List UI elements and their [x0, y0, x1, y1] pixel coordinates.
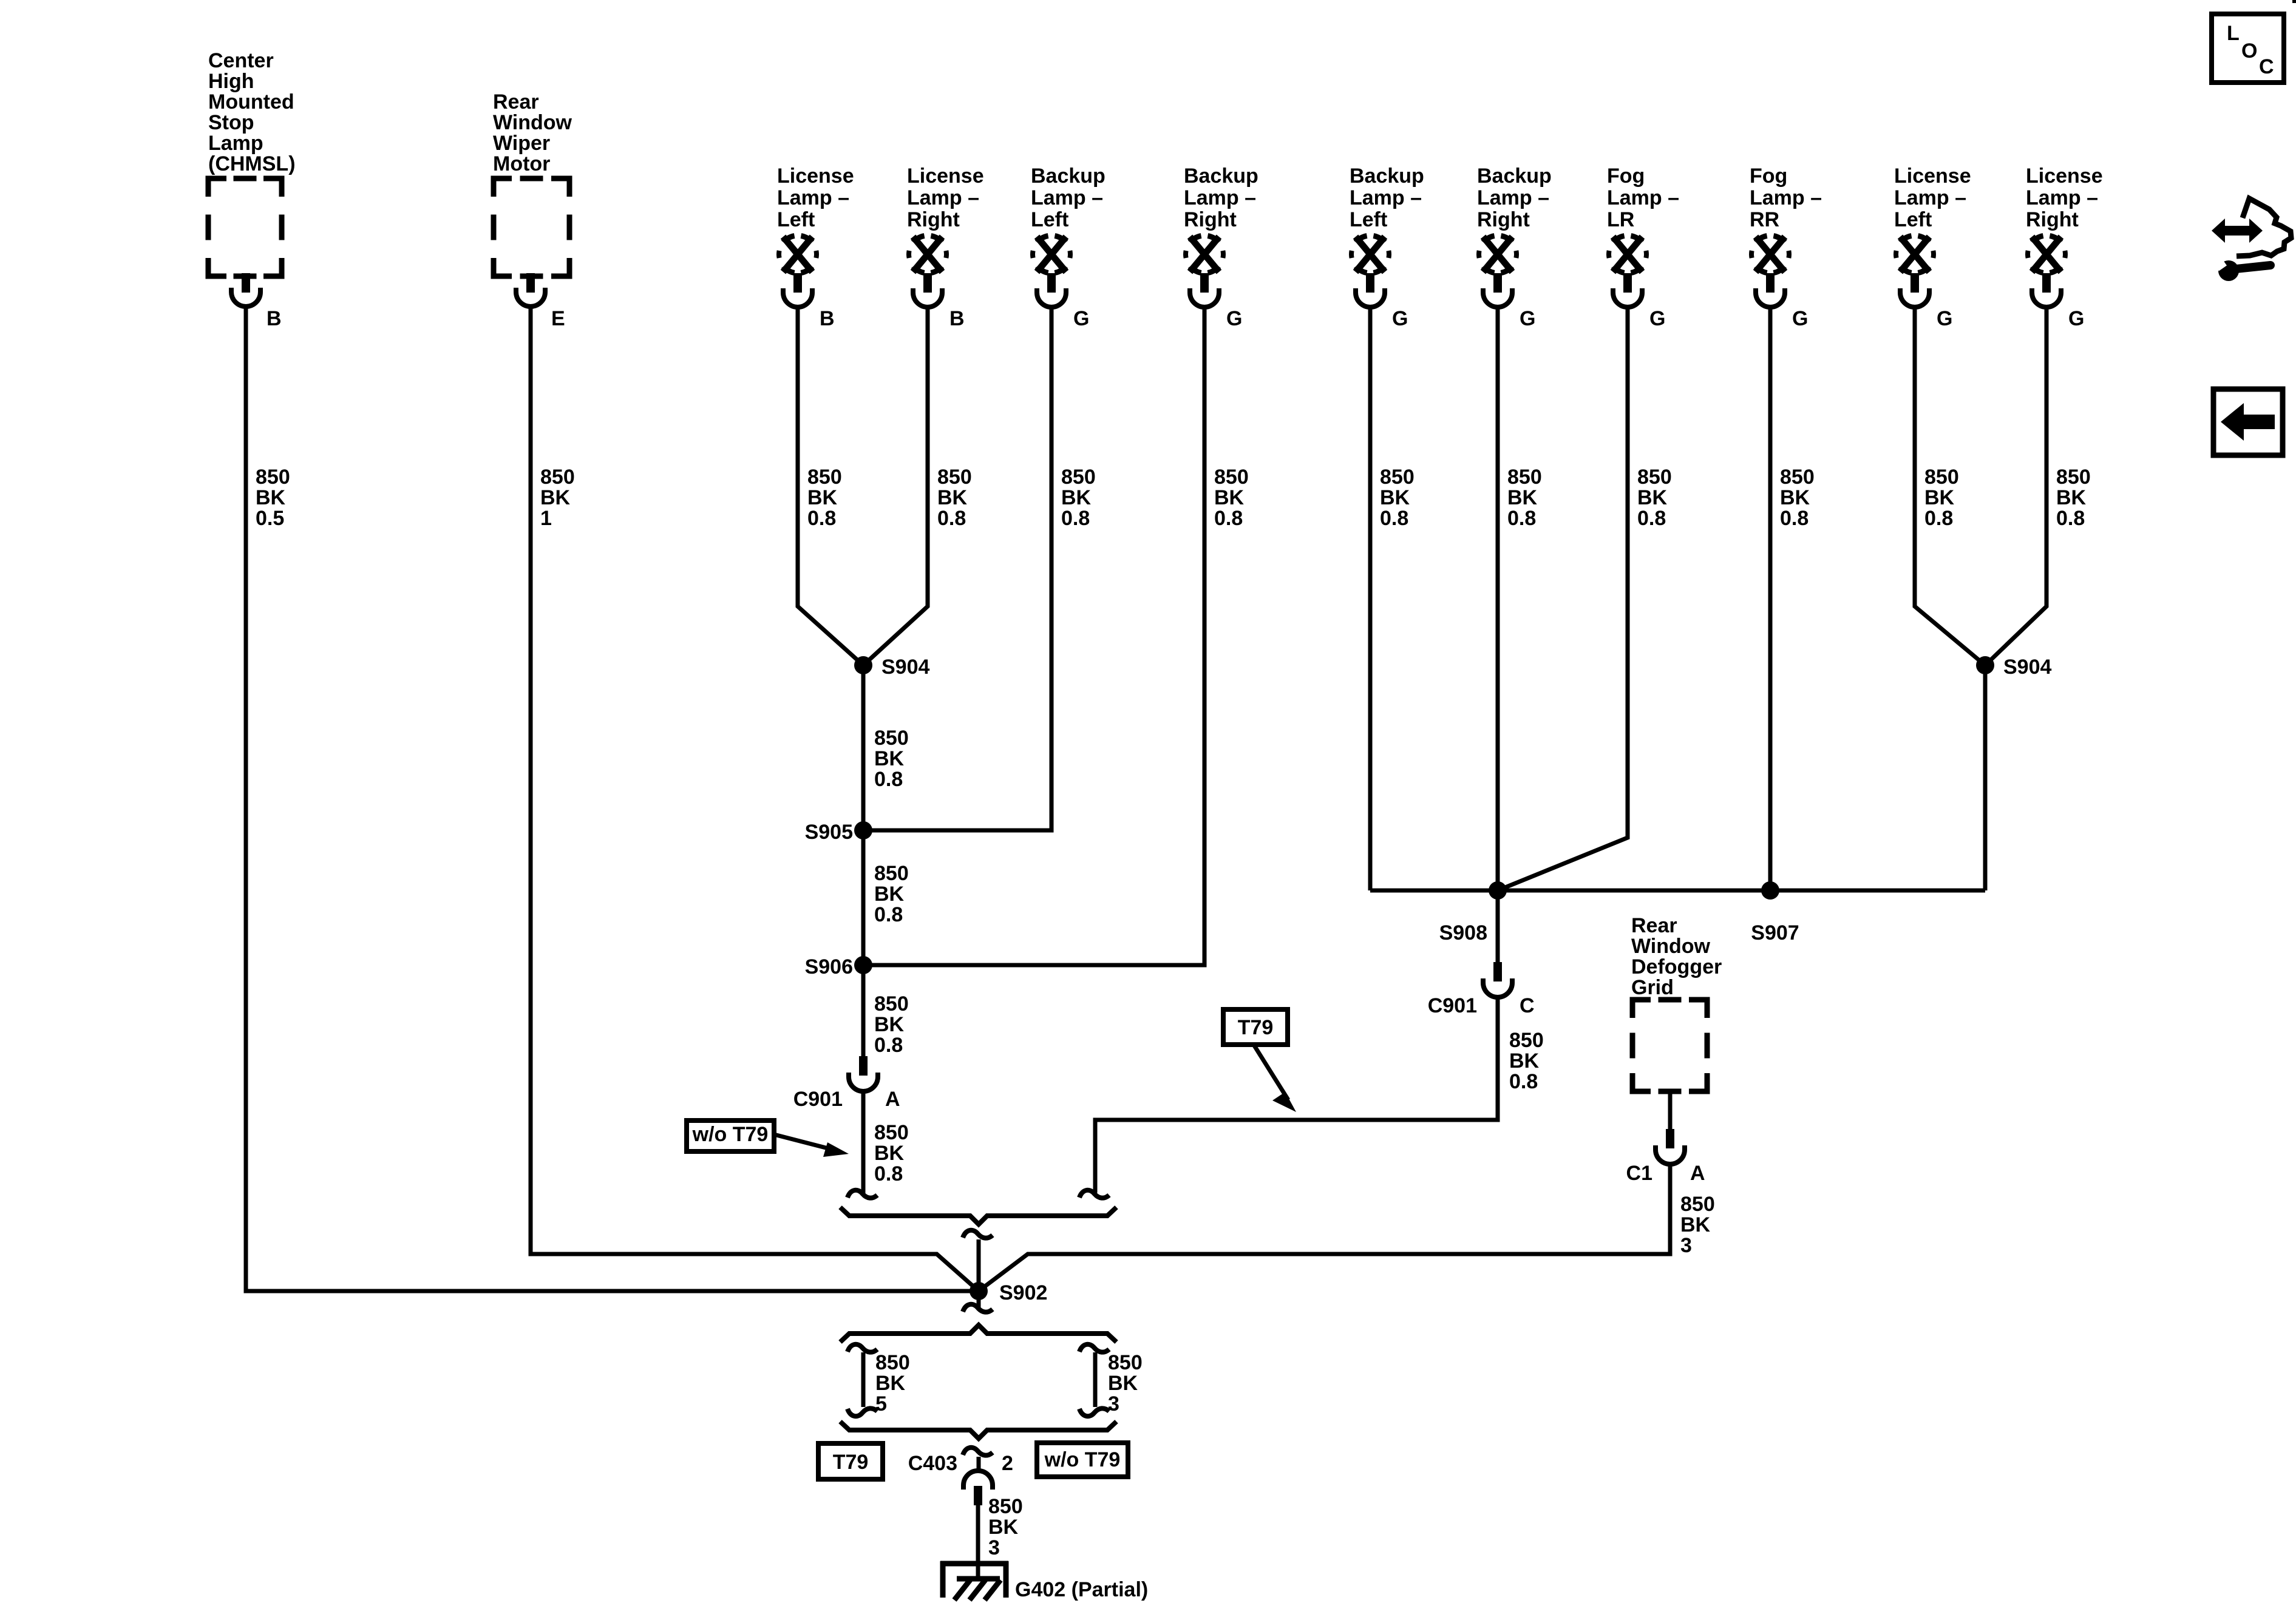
dashed box Center High Mounted Stop Lamp (CHMSL)	[208, 178, 282, 276]
svg-text:C901: C901	[1428, 994, 1477, 1017]
splice S905	[854, 821, 872, 839]
svg-text:G: G	[1937, 307, 1952, 330]
svg-text:0.8: 0.8	[1780, 507, 1809, 530]
bracket curls 850 BK 3 segment	[1079, 1344, 1109, 1352]
svg-text:B: B	[820, 307, 835, 330]
wire ground bus S908 to S907	[1370, 889, 1985, 893]
splice brace lower (into C403)	[840, 1422, 1116, 1439]
svg-text:850: 850	[1637, 466, 1672, 489]
svg-text:850: 850	[937, 466, 972, 489]
connector cavity pin G of Backup Lamp - Left	[1037, 288, 1066, 307]
arrow from w/o T79 box	[774, 1134, 833, 1150]
connector C403 pin 2	[963, 1471, 993, 1490]
svg-text:BK: BK	[874, 1013, 905, 1036]
connector cavity pin G of Backup Lamp - Right	[1190, 288, 1219, 307]
connector cavity pin G of Backup Lamp - Right (2)	[1483, 288, 1512, 307]
svg-text:5: 5	[875, 1392, 887, 1415]
wire 850 BK 1 from Rear Window Wiper Motor to S902	[531, 307, 979, 1291]
wire 850 BK 0.8 S904 to S905 to S906 to C901 A	[861, 665, 866, 1057]
svg-text:B: B	[949, 307, 965, 330]
wire 850 BK 0.8 S908 down to C901 C	[1496, 890, 1500, 963]
break at end of C901 C wire	[1079, 1190, 1109, 1198]
break above C403	[963, 1448, 993, 1456]
wire 850 BK 0.8 from C901 C to splice brace	[1095, 997, 1498, 1193]
svg-text:3: 3	[1680, 1234, 1692, 1257]
svg-text:Lamp –: Lamp –	[907, 186, 979, 209]
wire wire lower brace to C403	[977, 1457, 981, 1472]
svg-text:850: 850	[1108, 1351, 1143, 1374]
svg-text:Fog: Fog	[1750, 164, 1787, 188]
svg-text:Backup: Backup	[1184, 164, 1258, 188]
svg-text:Rear: Rear	[493, 90, 539, 114]
svg-text:S908: S908	[1439, 921, 1487, 944]
svg-text:Lamp –: Lamp –	[1184, 186, 1256, 209]
pin stub Center High Mounted Stop Lamp (CHMSL)	[242, 273, 250, 293]
svg-text:850: 850	[874, 727, 909, 750]
svg-text:G402 (Partial): G402 (Partial)	[1015, 1578, 1148, 1601]
break below upper brace	[963, 1230, 993, 1238]
svg-text:Backup: Backup	[1031, 164, 1106, 188]
svg-text:(CHMSL): (CHMSL)	[208, 152, 296, 175]
svg-text:0.8: 0.8	[1509, 1070, 1538, 1093]
svg-text:High: High	[208, 70, 254, 93]
svg-text:Lamp –: Lamp –	[1477, 186, 1549, 209]
svg-text:0.8: 0.8	[1214, 507, 1243, 530]
svg-text:BK: BK	[937, 486, 968, 509]
connector C901 pin C	[1493, 962, 1502, 981]
wire wire upper brace to S902	[977, 1239, 981, 1291]
connector cavity pin G of Fog Lamp - RR	[1756, 288, 1785, 307]
wire 850 BK 0.8 from Backup Lamp Left(2) to S908 bus	[1368, 307, 1373, 890]
svg-text:BK: BK	[1780, 486, 1810, 509]
bracket curls 850 BK 5 segment	[847, 1344, 877, 1352]
wire 850 BK 0.8 from S904 to bus	[1983, 665, 1988, 890]
svg-text:850: 850	[988, 1495, 1023, 1518]
pin stub License Lamp - Left (2)	[1911, 273, 1919, 293]
svg-text:BK: BK	[256, 486, 286, 509]
svg-text:w/o T79: w/o T79	[1044, 1448, 1121, 1471]
connector cavity pin G of License Lamp - Left (2)	[1900, 288, 1929, 307]
wire 850 BK 3 from C1 A to S902	[979, 1164, 1670, 1291]
dashed box Rear Window Defogger Grid	[1632, 1000, 1707, 1091]
svg-text:C: C	[1520, 994, 1535, 1017]
svg-text:850: 850	[1380, 466, 1415, 489]
connector C1 pin A	[1666, 1129, 1674, 1148]
svg-text:0.8: 0.8	[1924, 507, 1953, 530]
svg-text:T79: T79	[833, 1451, 869, 1474]
pin stub Backup Lamp - Right (2)	[1493, 273, 1502, 293]
svg-text:BK: BK	[988, 1516, 1019, 1539]
svg-text:E: E	[551, 307, 565, 330]
wire 850 BK 3 from C403 to G402	[976, 1505, 980, 1581]
wire 850 BK 0.8 from License Lamp Right to S904	[863, 307, 928, 665]
pin stub Fog Lamp - RR	[1766, 273, 1775, 293]
svg-text:S905: S905	[805, 821, 853, 844]
arrow from T79 box	[1254, 1045, 1288, 1100]
svg-text:L: L	[2227, 22, 2240, 45]
svg-text:Lamp –: Lamp –	[1894, 186, 1966, 209]
svg-text:A: A	[885, 1088, 900, 1111]
connector cavity pin G of License Lamp - Right (2)	[2032, 288, 2061, 307]
svg-text:BK: BK	[1380, 486, 1410, 509]
splice brace upper (wires into S902)	[840, 1207, 1116, 1224]
wire 850 BK 0.5 from CHMSL to S902	[246, 307, 979, 1291]
wire 850 BK 0.8 from Backup Lamp Right(2) to S908	[1496, 307, 1500, 890]
svg-text:RR: RR	[1750, 208, 1779, 231]
svg-text:License: License	[907, 164, 984, 188]
svg-text:3: 3	[988, 1536, 1000, 1559]
svg-text:C1: C1	[1626, 1162, 1652, 1185]
pin stub Backup Lamp - Left (2)	[1366, 273, 1374, 293]
wire wire S902 down to break	[977, 1291, 981, 1308]
splice S906	[854, 956, 872, 974]
pin stub Backup Lamp - Right	[1200, 273, 1209, 293]
splice S907	[1761, 881, 1779, 900]
svg-text:G: G	[1520, 307, 1535, 330]
svg-text:BK: BK	[874, 883, 905, 906]
svg-text:850: 850	[874, 1121, 909, 1144]
svg-text:G: G	[2068, 307, 2084, 330]
wire 850 BK 0.8 from License Lamp Left to S904	[798, 307, 863, 665]
svg-text:Grid: Grid	[1631, 976, 1674, 999]
svg-text:0.8: 0.8	[874, 1034, 903, 1057]
svg-text:Lamp –: Lamp –	[1607, 186, 1679, 209]
svg-text:Left: Left	[1350, 208, 1387, 231]
connector cavity pin E of Rear Window Wiper Motor	[516, 288, 545, 307]
svg-text:Wiper: Wiper	[493, 132, 550, 155]
wire 850 BK 0.8 from C901 A to splice brace	[861, 1091, 866, 1195]
svg-text:License: License	[777, 164, 854, 188]
splice S904	[854, 656, 872, 674]
svg-text:BK: BK	[1924, 486, 1955, 509]
svg-text:850: 850	[540, 466, 575, 489]
svg-text:Center: Center	[208, 49, 274, 72]
svg-text:850: 850	[2056, 466, 2091, 489]
svg-text:Backup: Backup	[1350, 164, 1424, 188]
svg-text:BK: BK	[1680, 1213, 1711, 1236]
icon LOC box	[2212, 14, 2284, 83]
break below S902	[963, 1304, 993, 1312]
svg-text:850: 850	[874, 862, 909, 885]
svg-text:Stop: Stop	[208, 111, 254, 134]
option label w/o T79 (C403)	[1037, 1443, 1128, 1477]
pin stub Rear Window Wiper Motor	[526, 273, 535, 293]
option label T79 (C403)	[818, 1443, 883, 1479]
wire 850 BK 0.8 from Backup Lamp Left to S905	[863, 307, 1051, 830]
pin stub License Lamp - Right	[923, 273, 932, 293]
svg-text:LR: LR	[1607, 208, 1634, 231]
svg-text:Defogger: Defogger	[1631, 955, 1722, 978]
connector cavity pin G of Backup Lamp - Left (2)	[1356, 288, 1385, 307]
svg-text:BK: BK	[1108, 1372, 1138, 1395]
svg-text:Right: Right	[1477, 208, 1530, 231]
svg-text:BK: BK	[2056, 486, 2087, 509]
svg-text:850: 850	[875, 1351, 910, 1374]
svg-text:Window: Window	[493, 111, 572, 134]
svg-text:Left: Left	[1031, 208, 1068, 231]
page corner mark	[2292, 0, 2296, 3]
connector C901 pin A	[859, 1056, 868, 1076]
svg-text:C901: C901	[793, 1088, 843, 1111]
svg-text:0.8: 0.8	[874, 1162, 903, 1185]
wire 850 BK 0.8 from Fog Lamp LR to S908	[1498, 307, 1628, 890]
wire wire segment 850 BK 3 (w/o T79)	[1093, 1352, 1098, 1407]
svg-text:Fog: Fog	[1607, 164, 1645, 188]
svg-text:850: 850	[1680, 1193, 1715, 1216]
svg-text:BK: BK	[807, 486, 838, 509]
svg-text:3: 3	[1108, 1392, 1119, 1415]
svg-text:G: G	[1649, 307, 1665, 330]
connector cavity pin B of License Lamp - Right	[913, 288, 942, 307]
svg-text:C403: C403	[908, 1452, 957, 1475]
svg-text:850: 850	[1061, 466, 1096, 489]
svg-text:Lamp: Lamp	[208, 132, 263, 155]
svg-text:License: License	[1894, 164, 1971, 188]
svg-text:Right: Right	[1184, 208, 1237, 231]
svg-text:1: 1	[540, 507, 552, 530]
svg-text:Lamp –: Lamp –	[777, 186, 849, 209]
svg-text:License: License	[2026, 164, 2103, 188]
svg-text:A: A	[1690, 1162, 1705, 1185]
splice S904 (right)	[1976, 656, 1994, 674]
svg-text:0.8: 0.8	[1507, 507, 1536, 530]
svg-text:BK: BK	[1214, 486, 1245, 509]
svg-text:T79: T79	[1238, 1016, 1274, 1039]
svg-text:Lamp –: Lamp –	[1031, 186, 1103, 209]
svg-text:BK: BK	[1509, 1049, 1540, 1073]
break at end of C901 A wire	[847, 1190, 877, 1198]
svg-text:BK: BK	[1637, 486, 1668, 509]
svg-text:w/o T79: w/o T79	[692, 1123, 769, 1146]
svg-text:850: 850	[1924, 466, 1959, 489]
svg-text:S904: S904	[2003, 656, 2051, 679]
svg-text:850: 850	[1509, 1029, 1544, 1052]
svg-text:S904: S904	[881, 656, 929, 679]
svg-text:Mounted: Mounted	[208, 90, 294, 114]
svg-text:0.8: 0.8	[1380, 507, 1408, 530]
svg-text:Backup: Backup	[1477, 164, 1552, 188]
svg-text:850: 850	[1780, 466, 1815, 489]
svg-text:BK: BK	[875, 1372, 906, 1395]
svg-text:Lamp –: Lamp –	[1750, 186, 1822, 209]
svg-text:0.8: 0.8	[874, 768, 903, 791]
pin stub Fog Lamp - LR	[1623, 273, 1632, 293]
svg-text:O: O	[2241, 39, 2257, 63]
svg-text:BK: BK	[1061, 486, 1092, 509]
svg-text:G: G	[1792, 307, 1808, 330]
dashed box Rear Window Wiper Motor	[494, 178, 569, 276]
svg-text:BK: BK	[1507, 486, 1538, 509]
wire wire segment 850 BK 5 (T79)	[861, 1352, 866, 1407]
svg-text:0.8: 0.8	[2056, 507, 2085, 530]
svg-text:Right: Right	[907, 208, 960, 231]
ground G402 (Partial)	[940, 1561, 1008, 1600]
svg-text:0.8: 0.8	[1637, 507, 1666, 530]
splice S902	[970, 1282, 988, 1300]
connector cavity pin B of Center High Mounted Stop Lamp (CHMSL)	[231, 288, 260, 307]
svg-text:S902: S902	[999, 1281, 1047, 1304]
option label T79	[1223, 1009, 1288, 1045]
svg-text:C: C	[2259, 55, 2274, 78]
svg-text:S906: S906	[805, 955, 853, 978]
svg-text:0.5: 0.5	[256, 507, 284, 530]
svg-text:850: 850	[1507, 466, 1542, 489]
svg-text:B: B	[267, 307, 282, 330]
svg-text:850: 850	[874, 992, 909, 1015]
wire 850 BK 0.8 from License Lamp Left(2) to S904	[1915, 307, 1985, 665]
svg-text:BK: BK	[874, 1142, 905, 1165]
pin stub License Lamp - Left	[793, 273, 802, 293]
connector cavity pin G of Fog Lamp - LR	[1613, 288, 1642, 307]
icon back arrow box	[2213, 389, 2283, 455]
svg-text:0.8: 0.8	[937, 507, 966, 530]
svg-text:Lamp –: Lamp –	[1350, 186, 1422, 209]
svg-text:BK: BK	[540, 486, 571, 509]
icon component locator (arrow + part outline + wrench)	[2237, 198, 2291, 256]
svg-text:Motor: Motor	[493, 152, 550, 175]
svg-text:Rear: Rear	[1631, 914, 1677, 937]
svg-text:Window: Window	[1631, 935, 1711, 958]
svg-text:850: 850	[1214, 466, 1249, 489]
svg-text:0.8: 0.8	[1061, 507, 1090, 530]
wire 850 BK 0.8 from Fog Lamp RR to S907	[1768, 307, 1773, 890]
wire wire Defogger Grid to C1 A	[1668, 1091, 1673, 1130]
svg-text:850: 850	[807, 466, 842, 489]
svg-text:Lamp –: Lamp –	[2026, 186, 2098, 209]
splice brace middle (S902 out)	[840, 1325, 1116, 1342]
svg-text:2: 2	[1002, 1452, 1013, 1475]
connector cavity pin B of License Lamp - Left	[783, 288, 812, 307]
wire 850 BK 0.8 from License Lamp Right(2) to S904	[1985, 307, 2046, 665]
pin stub Backup Lamp - Left	[1047, 273, 1056, 293]
svg-text:G: G	[1392, 307, 1408, 330]
svg-text:0.8: 0.8	[874, 903, 903, 926]
option label w/o T79	[687, 1120, 774, 1151]
svg-text:Right: Right	[2026, 208, 2079, 231]
splice S908	[1489, 881, 1507, 900]
svg-text:S907: S907	[1751, 921, 1799, 944]
svg-text:Left: Left	[777, 208, 815, 231]
svg-text:850: 850	[256, 466, 290, 489]
svg-text:0.8: 0.8	[807, 507, 836, 530]
svg-text:G: G	[1073, 307, 1089, 330]
svg-text:Left: Left	[1894, 208, 1932, 231]
svg-text:BK: BK	[874, 747, 905, 770]
svg-text:G: G	[1226, 307, 1242, 330]
pin stub License Lamp - Right (2)	[2042, 273, 2051, 293]
wire 850 BK 0.8 from Backup Lamp Right to S906	[863, 307, 1204, 965]
